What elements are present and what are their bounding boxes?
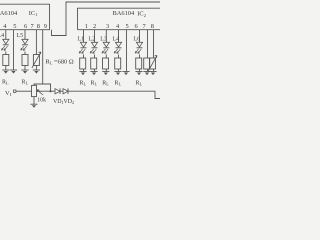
ground (left col1) bbox=[2, 70, 9, 74]
ground (left pot) bbox=[33, 70, 40, 74]
wire potentiometer RP2 to ground bbox=[153, 69, 155, 72]
IC1 box (BA6104) bbox=[0, 4, 50, 30]
svg-text:L3: L3 bbox=[100, 37, 107, 43]
svg-text:VD2: VD2 bbox=[64, 99, 75, 105]
diode VD1 bbox=[55, 88, 60, 94]
svg-text:L2: L2 bbox=[89, 37, 96, 43]
wire IC1 pin4 to LED L4 bbox=[5, 30, 7, 40]
svg-text:RL: RL bbox=[91, 81, 98, 87]
IC2 box (BA6104) bbox=[78, 8, 162, 30]
LED L3 bbox=[102, 42, 110, 53]
IC2 pin numbers 1-8 bbox=[85, 23, 154, 30]
wire IC2 pin5 to ground bbox=[126, 30, 128, 72]
resistor R_L (right col7) bbox=[144, 58, 150, 69]
wire LED L3 to resistor bbox=[105, 55, 107, 59]
wire resistor to ground bbox=[24, 66, 26, 71]
LED L2 bbox=[90, 42, 98, 53]
wire LED L4 to resistor bbox=[118, 55, 120, 59]
LED L4(part) bbox=[1, 39, 8, 50]
LED L6 bbox=[135, 42, 143, 53]
ground (right col3) bbox=[102, 72, 109, 76]
wire RP3 top bridge to diode line bbox=[34, 84, 51, 91]
ground (RP3) bbox=[30, 104, 37, 108]
resistor R_L (right col6) bbox=[136, 58, 142, 69]
wire IC2 pin2 to LED L2 bbox=[94, 30, 96, 43]
wire IC1 pin6 to LED L5 bbox=[24, 30, 26, 40]
wire IC2 pin3 to LED L3 bbox=[105, 30, 107, 43]
wire IC2 pin8 to potentiometer RP2 bbox=[153, 30, 155, 58]
svg-text:L4: L4 bbox=[113, 37, 120, 43]
wire IC1 pin9 down to input node bbox=[42, 30, 44, 84]
svg-text:L1: L1 bbox=[78, 37, 85, 43]
svg-text:3: 3 bbox=[106, 23, 109, 30]
svg-text:BA6104: BA6104 bbox=[0, 10, 18, 17]
wire VD2 to right edge output bbox=[68, 91, 160, 98]
wire to diode VD1 bbox=[37, 90, 56, 92]
resistor R_L (right col1) bbox=[80, 58, 86, 69]
ground (right col1) bbox=[79, 72, 86, 76]
ground (right col5) bbox=[122, 72, 129, 76]
potentiometer RP1 (left) (variable resistor) bbox=[32, 52, 41, 68]
svg-text:RL =680 Ω: RL =680 Ω bbox=[46, 58, 74, 65]
wire potentiometer RP1 to ground bbox=[35, 66, 37, 71]
svg-text:10k: 10k bbox=[37, 98, 46, 104]
wire resistor to ground bbox=[5, 66, 7, 71]
svg-text:RL: RL bbox=[136, 81, 143, 87]
resistor R_L (right col4) bbox=[115, 58, 121, 69]
wire LED L6 to resistor bbox=[139, 55, 141, 59]
svg-text:RL: RL bbox=[115, 81, 122, 87]
resistor R_L (left col3) bbox=[22, 55, 28, 66]
LED L5 bbox=[21, 39, 29, 50]
svg-text:2: 2 bbox=[93, 23, 96, 30]
wire LED L4 to resistor bbox=[5, 52, 7, 55]
wire resistor to ground bbox=[105, 69, 107, 72]
diode VD2 bbox=[63, 88, 68, 94]
svg-text:RL: RL bbox=[2, 80, 9, 86]
wire LED L5 to resistor bbox=[24, 52, 26, 55]
svg-text:6: 6 bbox=[135, 23, 138, 30]
svg-text:5: 5 bbox=[126, 23, 129, 30]
svg-text:RL: RL bbox=[102, 81, 109, 87]
wire RP3 to ground bbox=[33, 97, 35, 105]
svg-text:VD1: VD1 bbox=[53, 99, 64, 105]
svg-text:RL: RL bbox=[80, 81, 87, 87]
wire VD1 to VD2 bbox=[60, 90, 63, 92]
svg-text:8: 8 bbox=[37, 23, 40, 30]
wire IC1 pin8 to potentiometer RP1 bbox=[35, 30, 37, 55]
wire LED L1 to resistor bbox=[83, 55, 85, 59]
wire IC1 pin5 to ground bbox=[13, 30, 15, 70]
svg-text:L6: L6 bbox=[134, 37, 141, 43]
svg-text:8: 8 bbox=[151, 23, 154, 30]
wire LED L2 to resistor bbox=[94, 55, 96, 59]
svg-text:5: 5 bbox=[13, 23, 16, 30]
input terminal bbox=[14, 90, 16, 92]
wire IC2 pin1 to LED L1 bbox=[83, 30, 85, 43]
ground (left col2) bbox=[10, 70, 17, 74]
potentiometer RP3 10k bbox=[32, 85, 44, 96]
wire resistor to ground bbox=[83, 69, 85, 72]
ground (right col2) bbox=[90, 72, 97, 76]
wire IC2 pin6 to LED L6 bbox=[139, 30, 141, 43]
ground (right col7) bbox=[143, 72, 150, 76]
LED L4 bbox=[114, 42, 122, 53]
svg-text:BA6104: BA6104 bbox=[113, 10, 135, 17]
svg-text:RL: RL bbox=[22, 80, 29, 86]
ground (right col6) bbox=[135, 72, 142, 76]
svg-text:1: 1 bbox=[85, 23, 88, 30]
potentiometer RP2 (right) (variable resistor) bbox=[148, 56, 157, 72]
resistor R_L (left col1) bbox=[3, 55, 9, 66]
wire IC2 pin7 to resistor bbox=[147, 30, 149, 58]
ground (left col3) bbox=[21, 70, 28, 74]
resistor R_L (right col3) bbox=[103, 58, 109, 69]
wire resistor to ground bbox=[94, 69, 96, 72]
supply rail wire from IC1 pin 9 area to top rail over IC2 bbox=[52, 2, 161, 36]
LED L1 bbox=[79, 42, 87, 53]
IC1 pin numbers 4 5 6 7 8 9 bbox=[3, 23, 47, 30]
wire IC2 pin4 to LED L4 bbox=[118, 30, 120, 43]
wire resistor to ground bbox=[118, 69, 120, 72]
junction node bbox=[49, 90, 51, 92]
wire resistor to ground bbox=[139, 69, 141, 72]
wire resistor to ground bbox=[147, 69, 149, 72]
wire input terminal to potentiometer RP3 bbox=[16, 90, 32, 92]
ground (right pot) bbox=[149, 72, 156, 76]
svg-text:6: 6 bbox=[24, 23, 27, 30]
svg-text:L4: L4 bbox=[0, 33, 4, 39]
ground (right col4) bbox=[114, 72, 121, 76]
resistor R_L (right col2) bbox=[91, 58, 97, 69]
svg-text:L5: L5 bbox=[17, 33, 24, 39]
svg-text:9: 9 bbox=[44, 23, 47, 30]
